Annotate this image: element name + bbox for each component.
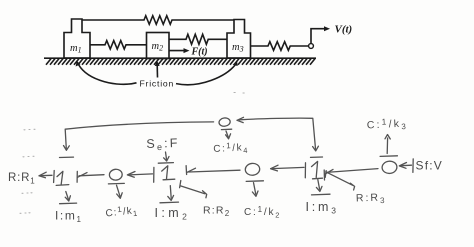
output node circle — [309, 44, 314, 49]
friction arrow to m2 — [155, 61, 160, 78]
bond: second 0 down to C:1/k2 — [246, 181, 263, 197]
wire: top-right rail from top 0 across and down to 1-junction — [237, 117, 323, 157]
bond: Se:F down to second 1 — [158, 152, 173, 163]
mass m2 — [147, 33, 170, 59]
stray pencil marks — [20, 93, 244, 214]
junction 0 (first) — [109, 169, 123, 181]
junction 0 (second) — [245, 163, 261, 176]
svg-text:m1: m1 — [70, 43, 82, 55]
svg-text:m2: m2 — [152, 41, 164, 53]
friction arrow to m1 — [76, 61, 137, 84]
junction 1 (second, mass m2) — [162, 166, 175, 180]
bond: third 1 to R:R3 — [325, 171, 354, 190]
bond: Sf:V to third 0 — [399, 159, 413, 173]
force input F(t) — [169, 47, 208, 58]
junction 1 (first, mass m1) — [56, 171, 69, 185]
spring k2 (m2 to m3) — [169, 34, 227, 44]
bond: first 1 down to I:m1 — [60, 192, 77, 204]
junction 1 (third, mass m3) — [312, 161, 323, 178]
junction 0 (third) — [382, 160, 398, 174]
bond: third 0 up to C:1/k3 — [380, 135, 397, 157]
bond: second 1 to R:R2 — [180, 181, 207, 198]
bond: third 1 to second 0 — [271, 163, 306, 178]
bond: 1 junction to R:R1 — [39, 171, 54, 183]
bond: second 0 to second 1 — [186, 166, 240, 175]
svg-text:Sf:V: Sf:V — [416, 159, 443, 173]
svg-text:Friction: Friction — [140, 79, 175, 89]
mass m3 — [227, 20, 251, 59]
spring k1 (m1 to m2) — [90, 41, 147, 49]
junction 0 top — [218, 117, 230, 127]
svg-text:F(t): F(t) — [191, 47, 208, 58]
spring k3 (m3 to output node) — [251, 42, 309, 51]
bond: third 0 to third 1 — [324, 169, 378, 180]
friction arrow to m3 — [176, 61, 238, 85]
bond: second 1 down to I:m2 — [160, 186, 179, 203]
wire: top-left rail from 1-junction up and across to top 0 — [60, 122, 214, 158]
svg-text:V(t): V(t) — [335, 24, 353, 36]
mass m1 — [64, 19, 90, 58]
svg-text:m3: m3 — [232, 42, 244, 54]
bond: third 1 down to I:m3 — [312, 180, 331, 195]
bond: 0 to first 1 — [77, 171, 104, 182]
ground — [44, 58, 316, 65]
bond: second 1 to first 0 — [127, 167, 153, 182]
velocity output V(t) — [311, 24, 352, 44]
spring k4 (top, m1 to m3) — [82, 16, 234, 25]
svg-text:Se:F: Se:F — [146, 136, 180, 153]
bond: top 0 to C:1/k4 — [221, 129, 231, 139]
bond: first 0 down to C:1/k1 — [108, 183, 124, 198]
